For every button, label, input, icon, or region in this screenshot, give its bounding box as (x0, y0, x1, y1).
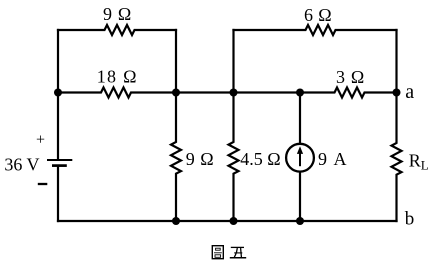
svg-text:4.5 Ω: 4.5 Ω (240, 149, 280, 169)
svg-text:3 Ω: 3 Ω (336, 67, 365, 87)
svg-text:b: b (405, 209, 415, 230)
svg-text:6 Ω: 6 Ω (304, 5, 332, 25)
svg-text:36 V: 36 V (4, 155, 39, 175)
svg-text:18 Ω: 18 Ω (97, 67, 138, 87)
svg-text:9 Ω: 9 Ω (186, 149, 214, 169)
svg-text:9 A: 9 A (318, 149, 348, 169)
svg-text:9 Ω: 9 Ω (103, 4, 132, 24)
svg-text:a: a (405, 81, 414, 103)
svg-text:+: + (36, 132, 45, 149)
